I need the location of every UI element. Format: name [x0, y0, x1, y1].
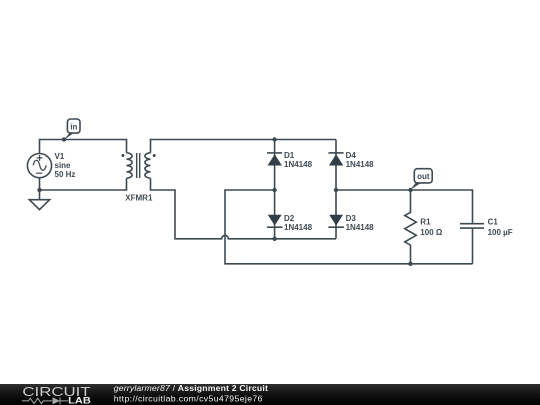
capacitor C1 plates [460, 224, 484, 228]
wire: C1 bottom lead [472, 229, 474, 264]
svg-text:out: out [417, 172, 430, 181]
wire: right middle rail to C1 top [336, 190, 473, 223]
phase dot secondary [153, 154, 156, 157]
wire: ground stem [39, 190, 41, 200]
core bars [137, 153, 140, 178]
voltage source V1 [27, 154, 51, 178]
label D1 [284, 151, 313, 169]
diode D2 [267, 215, 283, 228]
svg-text:1N4148: 1N4148 [284, 223, 313, 232]
resistor R1 [405, 190, 417, 264]
transformer XFMR1 [127, 153, 151, 178]
junction: in-flag tap [62, 137, 66, 141]
logo resistor-diode glyph [22, 398, 68, 405]
svg-text:C1: C1 [488, 218, 499, 227]
label V1 [55, 152, 76, 179]
svg-text:100 Ω: 100 Ω [420, 228, 443, 237]
junction: V1 bottom [37, 188, 41, 192]
wire: left middle rail down to bottom return rail [225, 190, 473, 264]
wire: right diode column [335, 140, 337, 239]
svg-text:1N4148: 1N4148 [346, 223, 375, 232]
svg-text:50 Hz: 50 Hz [55, 170, 76, 179]
diode D4 [328, 153, 343, 166]
svg-text:1N4148: 1N4148 [284, 160, 313, 169]
svg-text:in: in [70, 122, 77, 131]
flag out [410, 169, 432, 190]
wire: secondary bottom to bridge bottom rail (with hop) [151, 178, 337, 239]
junction: left column bottom [272, 237, 276, 241]
junction: right column middle [334, 188, 338, 192]
wire: left diode column [274, 140, 276, 239]
label D3 [346, 214, 375, 232]
diode D3 [328, 215, 344, 228]
svg-text:R1: R1 [420, 218, 431, 227]
svg-text:1N4148: 1N4148 [346, 160, 375, 169]
label D4 [346, 151, 375, 169]
svg-text:D1: D1 [284, 151, 295, 160]
flag in [64, 119, 80, 140]
svg-text:sine: sine [55, 161, 72, 170]
label R1 [420, 218, 443, 237]
svg-text:LAB: LAB [68, 396, 91, 405]
ground [29, 200, 49, 210]
primary coil [127, 153, 133, 178]
svg-text:D4: D4 [346, 151, 357, 160]
svg-text:D3: D3 [346, 214, 357, 223]
svg-text:V1: V1 [55, 152, 65, 161]
svg-text:XFMR1: XFMR1 [125, 194, 153, 203]
label C1 [488, 218, 513, 237]
svg-text:http://circuitlab.com/cv5u4795: http://circuitlab.com/cv5u4795eje76 [114, 394, 263, 404]
diode D1 [267, 153, 282, 166]
svg-text:D2: D2 [284, 214, 295, 223]
wire: V1 bottom to transformer primary bottom [40, 178, 127, 190]
junction: R1 top / out tap [408, 188, 412, 192]
junction: top rail / left column [272, 137, 276, 141]
label D2 [284, 214, 313, 232]
wire: secondary top rail [151, 140, 337, 153]
phase dot primary [121, 154, 124, 157]
junction: R1 bottom [408, 262, 412, 266]
wire: V1 top to transformer primary top [40, 140, 127, 154]
svg-text:100 µF: 100 µF [488, 228, 513, 237]
svg-text:gerrylarmer87 / Assignment 2 C: gerrylarmer87 / Assignment 2 Circuit [114, 383, 268, 393]
secondary coil [145, 153, 151, 178]
junction: left column middle [272, 188, 276, 192]
